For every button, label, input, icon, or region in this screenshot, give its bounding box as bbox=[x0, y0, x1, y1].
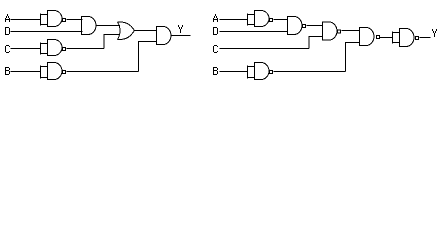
inverter U11 input splitter bbox=[248, 66, 255, 79]
wire U2 output to U3 bbox=[96, 25, 120, 27]
node B (left input label) bbox=[5, 67, 10, 75]
wire U8 output to U9 bbox=[307, 25, 323, 27]
wire D to U8 bbox=[220, 31, 288, 33]
NAND U8 output bubble bbox=[303, 25, 306, 28]
inverter U4 input splitter bbox=[41, 43, 48, 55]
wire U11 output (B') horizontal bbox=[274, 71, 346, 73]
wire U7 output (A') to U8 bbox=[274, 19, 288, 21]
inverter U6 (NAND as inverter, input B) bbox=[48, 62, 63, 80]
wire C' riser to U3 lower input bbox=[104, 35, 120, 49]
wire A to U7 bbox=[220, 19, 248, 21]
wire A to U1 bbox=[11, 19, 41, 21]
inverter U4 output bubble bbox=[63, 48, 66, 51]
NAND gate U10 (inputs U9 out, B') bbox=[360, 27, 375, 46]
inverter U1 (NAND as inverter, input A) bbox=[48, 10, 63, 27]
inverter U12 input splitter bbox=[393, 32, 400, 44]
wire B' riser to U5 lower input bbox=[139, 42, 157, 72]
OR gate U3 (inputs A'D, C') bbox=[118, 22, 135, 40]
wire U5 output Y (left) bbox=[171, 35, 191, 37]
inverter U6 output bubble bbox=[63, 71, 66, 74]
inverter U7 input splitter bbox=[248, 14, 255, 26]
wire U3 output to U5 bbox=[135, 30, 158, 32]
node Y (left output label) bbox=[178, 25, 183, 33]
inverter U4 (NAND as inverter, input C) bbox=[48, 39, 63, 56]
NAND U10 output bubble bbox=[377, 36, 380, 39]
node C (right input label) bbox=[213, 45, 218, 53]
NAND U9 output bubble bbox=[338, 30, 341, 33]
wire B to U11 bbox=[220, 71, 248, 73]
inverter U1 input splitter bbox=[41, 14, 48, 26]
wire B' riser to U10 lower input bbox=[346, 43, 360, 72]
node D (right input label) bbox=[213, 27, 218, 35]
node C (left input label) bbox=[5, 45, 10, 53]
NAND gate U8 (inputs A', D) bbox=[288, 16, 302, 35]
AND gate U5 (output gate, inputs A'D+C', B') bbox=[157, 26, 172, 45]
NAND U12 output bubble bbox=[416, 37, 419, 40]
node A (left input label) bbox=[5, 14, 10, 22]
wire U6 output (B') horizontal bbox=[67, 71, 139, 73]
wire C horizontal bbox=[220, 48, 310, 50]
node D (left input label) bbox=[5, 27, 10, 35]
NAND U7 output bubble bbox=[270, 19, 273, 22]
wire U12 output Y (right) bbox=[420, 37, 431, 39]
node B (right input label) bbox=[213, 67, 218, 75]
node Y (right output label) bbox=[432, 29, 437, 37]
inverter U6 input splitter bbox=[41, 66, 48, 79]
AND gate U2 (inputs A', D) bbox=[82, 16, 96, 35]
NAND gate U9 (inputs (A'D)', C) bbox=[323, 22, 338, 41]
node A (right input label) bbox=[213, 14, 218, 22]
wire U10 output to U12 bbox=[380, 37, 393, 39]
inverter U1 output bubble bbox=[63, 19, 66, 22]
wire C riser to U9 lower input bbox=[309, 37, 323, 49]
wire U9 output to U10 bbox=[342, 30, 360, 32]
wire D to U2 bbox=[11, 31, 83, 33]
NAND U11 output bubble bbox=[270, 71, 273, 74]
NAND U7 (as inverter, input A) bbox=[255, 10, 270, 27]
wire U4 output (C') horizontal bbox=[67, 48, 105, 50]
wire U1 output (A') to U2 bbox=[67, 19, 83, 21]
NAND U12 (output inverter) bbox=[400, 28, 414, 47]
NAND U11 (as inverter, input B) bbox=[255, 62, 270, 80]
wire C to U4 bbox=[11, 48, 41, 50]
wire B to U6 bbox=[11, 71, 41, 73]
